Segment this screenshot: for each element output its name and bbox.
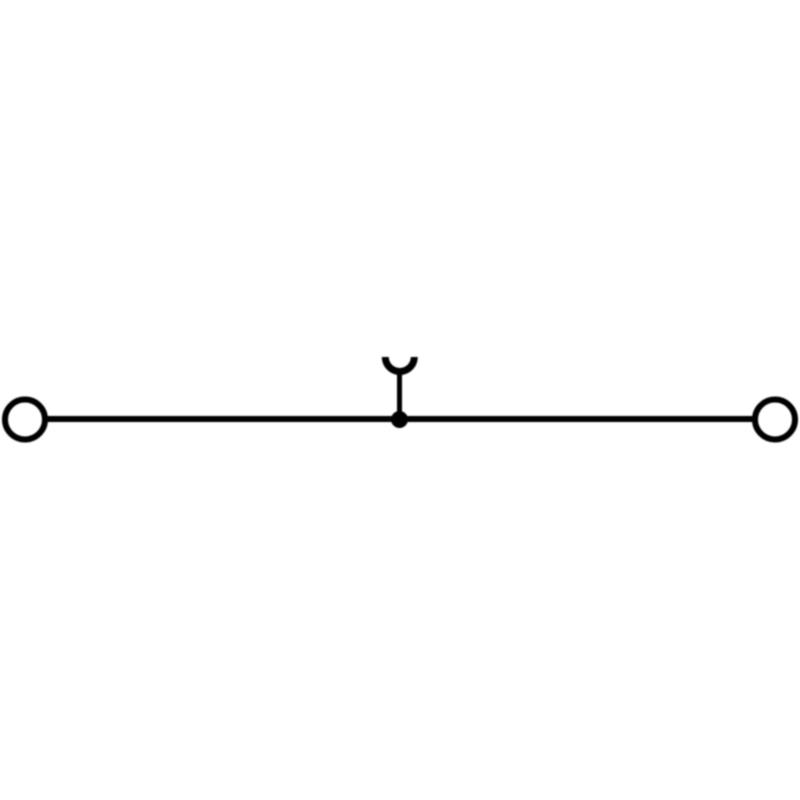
- socket tap arc: [385, 357, 414, 372]
- wire left segment: [25, 416, 400, 422]
- junction node: [391, 411, 408, 428]
- wire right segment: [400, 416, 776, 422]
- wire stem to tap: [397, 370, 402, 419]
- terminal circle right: [755, 400, 795, 440]
- terminal circle left: [5, 400, 45, 440]
